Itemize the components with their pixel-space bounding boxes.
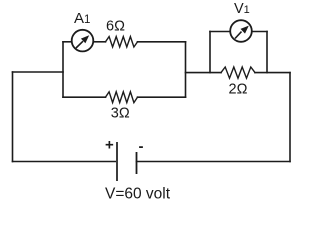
resistor 2ohm [221,67,255,78]
wire: left vertical [12,72,14,162]
wire: voltmeter loop top-left horizontal [210,31,230,33]
wire: bottom branch right of 3-ohm [138,96,186,98]
wire: voltmeter loop top-right horizontal [252,31,267,33]
svg-text:6Ω: 6Ω [106,19,125,35]
svg-text:V=60 volt: V=60 volt [105,186,171,203]
wire: left connector horizontal [13,71,64,73]
svg-text:-: - [139,138,144,155]
svg-text:2Ω: 2Ω [229,82,248,98]
battery positive plate (long) [116,142,118,181]
wire: ammeter to 6-ohm resistor [93,41,105,43]
resistor 6ohm (with A1 in series) [106,37,138,47]
wire: bottom right segment from battery [137,161,291,163]
voltmeter V1 [230,20,252,42]
wire: parallel-combo left vertical [62,42,64,97]
battery negative plate (short) [136,152,138,174]
wire: top branch into ammeter [63,41,72,43]
wire: voltmeter loop left vertical [209,32,211,73]
svg-text:+: + [105,137,114,154]
wire: far right vertical [289,73,291,162]
svg-text:3Ω: 3Ω [111,106,130,122]
resistor 3ohm [106,92,138,103]
wire: parallel-combo right vertical [185,42,187,97]
wire: voltmeter loop right vertical [266,32,268,73]
ammeter A1 [72,30,94,52]
svg-text:V1: V1 [234,1,250,17]
wire: 6-ohm resistor to right vertical [138,41,186,43]
wire: 2-ohm to right corner [255,72,290,74]
wire: bottom branch left of 3-ohm [63,96,106,98]
wire: middle wire combo to 2-ohm [186,72,222,74]
wire: bottom left segment to battery [13,161,118,163]
